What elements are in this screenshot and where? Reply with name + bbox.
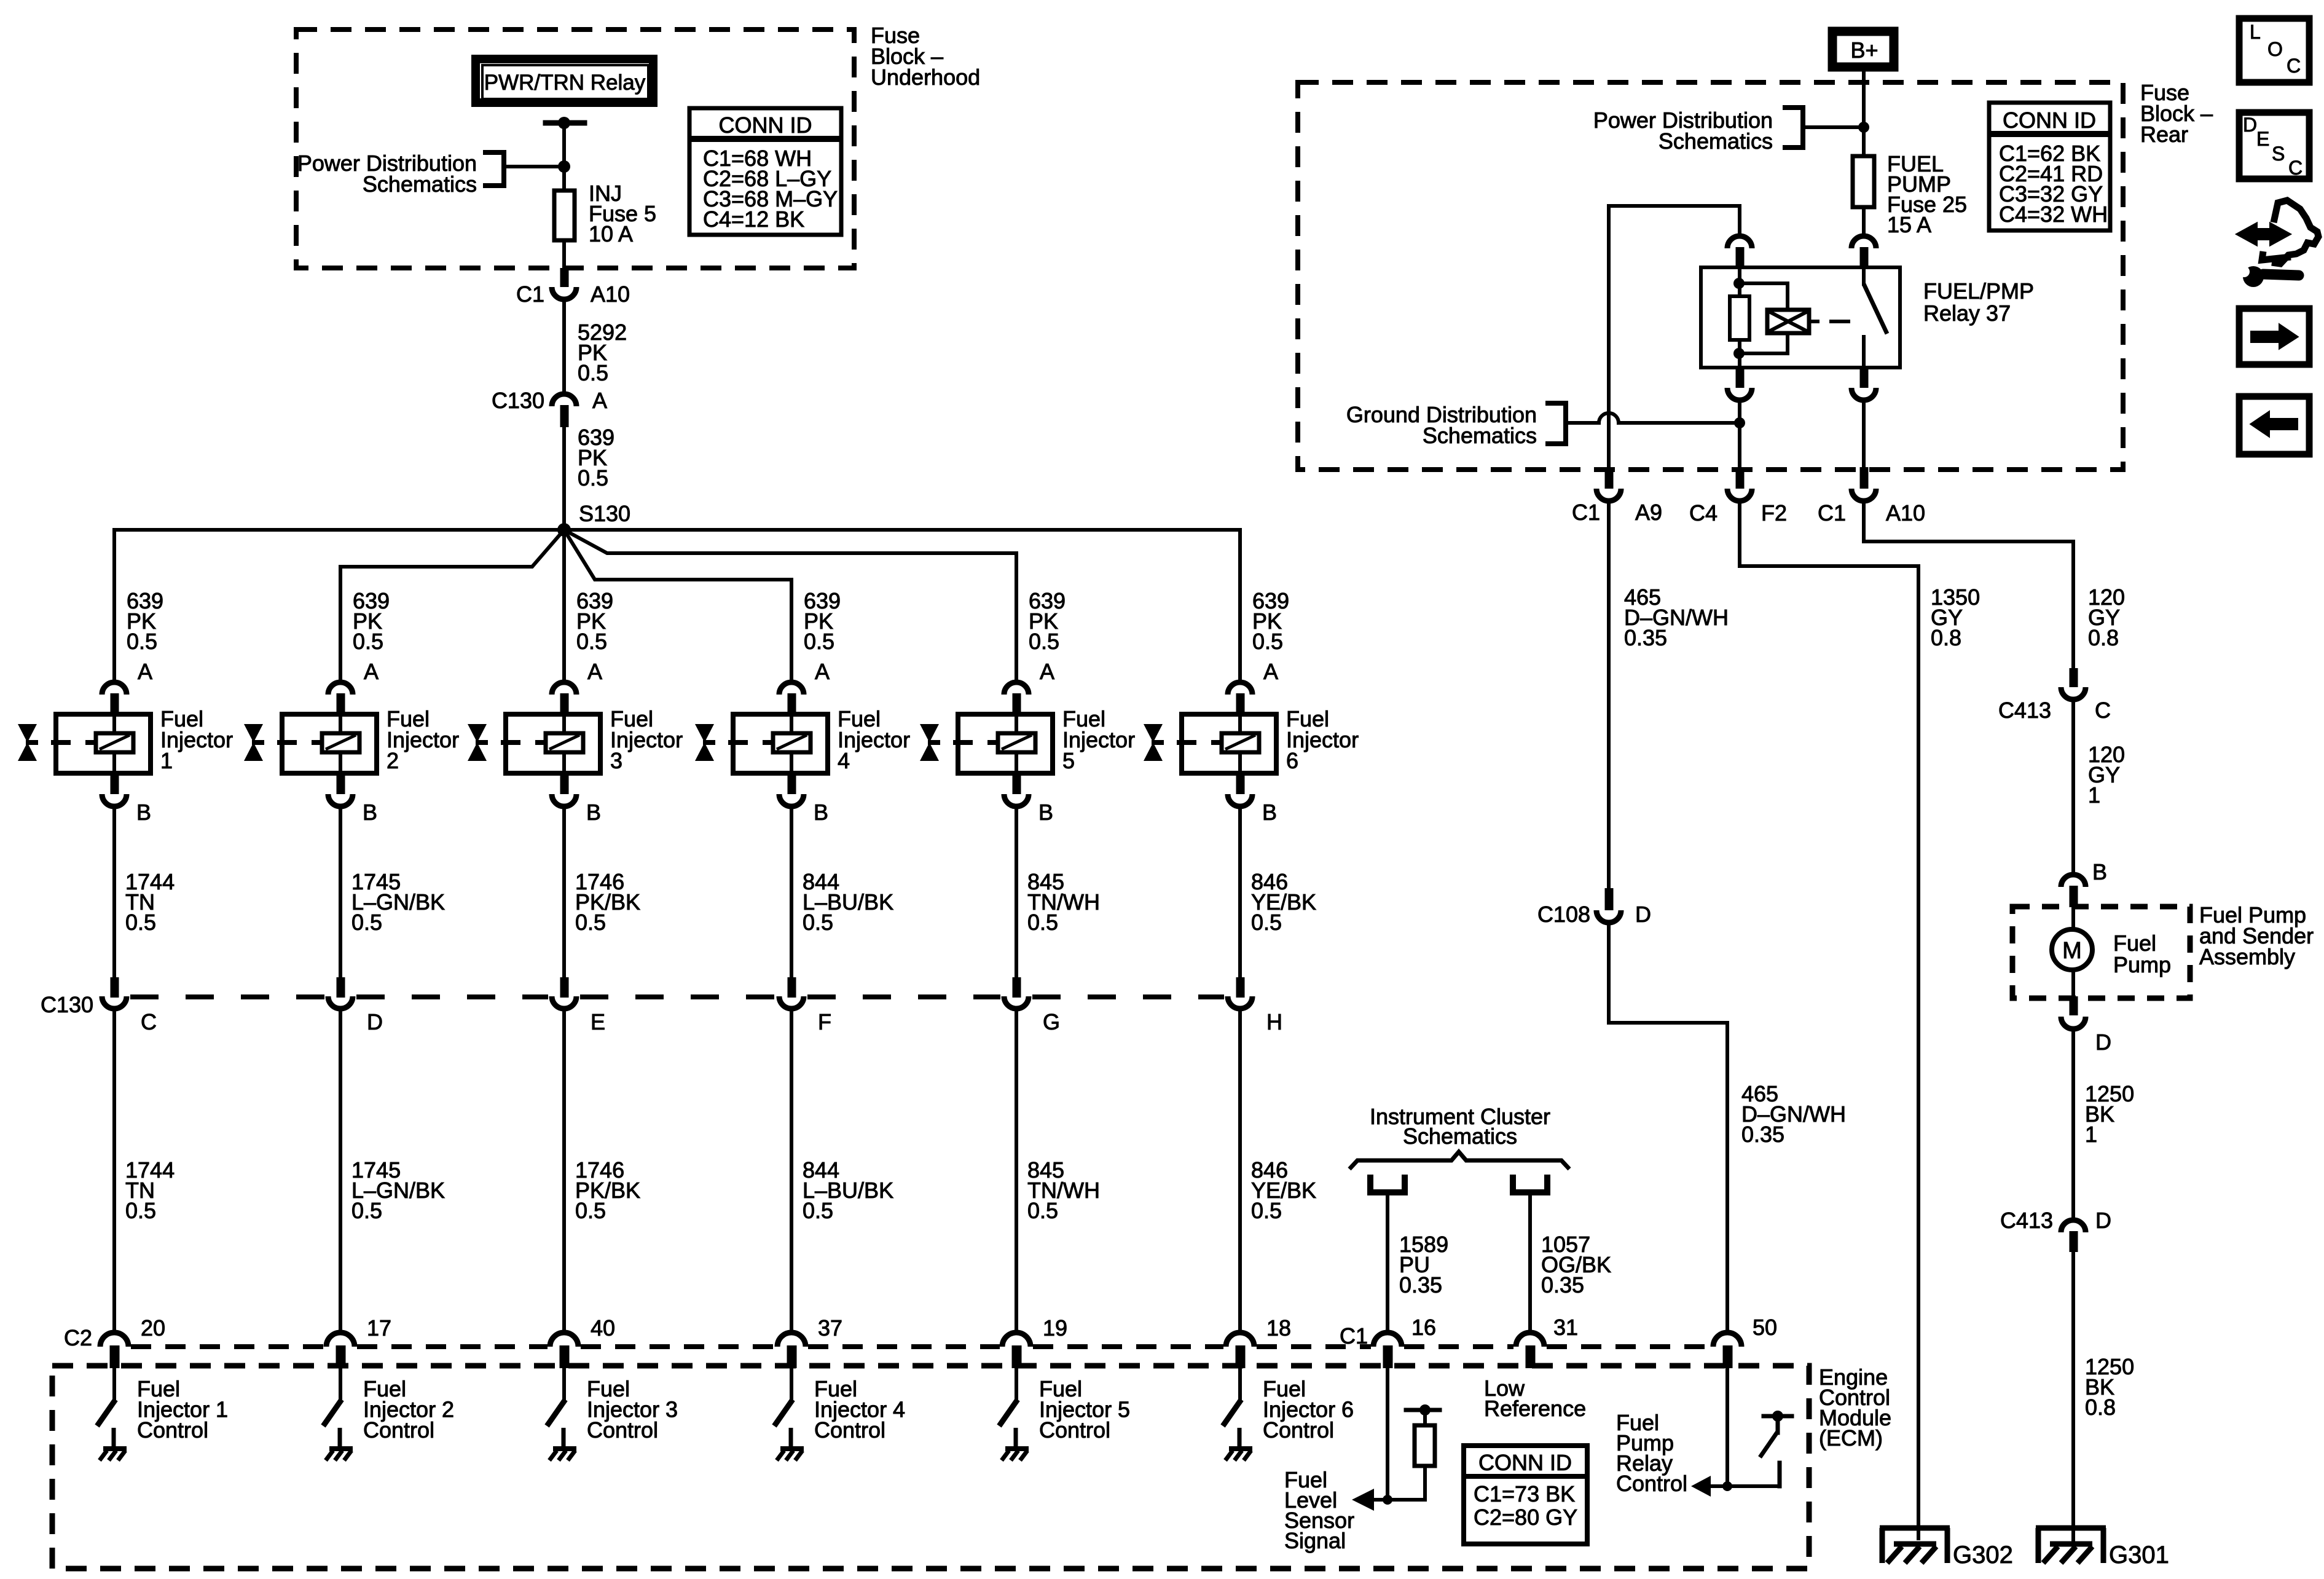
fuel injector 2 (solenoid with valve) [282,714,377,773]
svg-text:B: B [2092,859,2107,884]
svg-text:0.8: 0.8 [1931,625,1961,650]
wire: relay output down to fuse [562,123,566,189]
fuel pump and sender assembly enclosure [2012,907,2190,998]
svg-text:0.5: 0.5 [578,465,608,490]
svg-text:B: B [1038,800,1053,825]
svg-text:F: F [818,1009,831,1034]
svg-text:Underhood: Underhood [871,65,980,90]
svg-text:0.5: 0.5 [125,1198,156,1223]
fuel pump relay control arrow [1691,1476,1711,1497]
svg-text:Control: Control [1263,1417,1334,1443]
svg-text:Control: Control [1616,1471,1687,1496]
svg-text:Schematics: Schematics [1659,128,1773,154]
svg-text:19: 19 [1043,1315,1067,1341]
svg-text:C: C [141,1009,157,1034]
ground (ECM internal) injector 1 [100,1449,127,1460]
connector arc relay switch bottom [1860,368,1869,388]
wire 1746 PK/BK 0.5 upper [562,808,566,977]
svg-text:0.5: 0.5 [351,1198,382,1223]
wire 1350 GY 0.8 [1740,503,1918,1540]
ECM fuel injector 2 driver switch [339,1368,342,1400]
svg-text:1: 1 [2088,782,2100,808]
svg-text:1: 1 [2085,1122,2097,1147]
svg-text:F2: F2 [1761,500,1787,526]
wire B+ down [1862,71,1866,154]
wire: pin 16 to fuel level sensor node [1386,1368,1389,1500]
svg-text:15 A: 15 A [1887,212,1931,237]
svg-text:Schematics: Schematics [363,171,477,197]
svg-text:Schematics: Schematics [1423,423,1537,448]
svg-text:0.5: 0.5 [575,1198,606,1223]
svg-text:A10: A10 [591,282,630,307]
svg-text:6: 6 [1286,748,1298,773]
ground (ECM internal) injector 3 [549,1449,576,1460]
svg-text:0.5: 0.5 [1029,629,1059,654]
branch wire to injector 3 [562,530,566,682]
wire 1057 OG/BK 0.35 [1528,1192,1532,1332]
svg-text:G301: G301 [2109,1542,2169,1569]
svg-text:S130: S130 [579,501,630,526]
ground (ECM internal) injector 4 [777,1449,804,1460]
svg-text:C2=80 GY: C2=80 GY [1474,1505,1577,1530]
connector arc relay coil bottom [1736,368,1745,388]
wire 5292 PK 0.5 [562,301,566,392]
connector pin D fuel pump [2070,996,2078,1015]
svg-text:0.5: 0.5 [1027,910,1058,935]
svg-text:0.5: 0.5 [1027,1198,1058,1223]
icon wrench and arrows [2237,200,2318,287]
connector pin B of injector 2 [337,776,345,794]
connector C108 pin D [1605,888,1614,910]
svg-text:0.5: 0.5 [1251,910,1282,935]
svg-text:Pump: Pump [2113,952,2171,977]
svg-text:0.5: 0.5 [578,360,608,385]
connector C130 pin H [1236,977,1245,998]
svg-text:0.5: 0.5 [803,1198,833,1223]
icon DESC box [2239,112,2309,179]
wire 639 PK 0.5 (main feed) [562,427,566,530]
svg-text:17: 17 [367,1315,391,1341]
svg-text:0.35: 0.35 [1541,1272,1584,1297]
svg-text:0.5: 0.5 [1251,1198,1282,1223]
svg-text:CONN ID: CONN ID [2003,108,2096,133]
svg-text:L: L [2250,21,2261,43]
svg-text:0.5: 0.5 [125,910,156,935]
ECM enclosure [52,1366,1809,1569]
wire 1250 BK 0.8 [2071,1252,2075,1540]
svg-text:18: 18 [1266,1315,1291,1341]
fuel level sensor signal arrow [1352,1489,1374,1511]
svg-text:C4: C4 [1689,500,1717,526]
svg-text:0.5: 0.5 [804,629,834,654]
svg-text:C: C [2287,55,2301,77]
cluster stub (low reference) [1513,1175,1547,1192]
fuse INJ Fuse 5 10 A [554,191,575,240]
wire 1589 PU 0.35 [1386,1192,1389,1332]
svg-text:0.35: 0.35 [1399,1272,1442,1297]
CONN ID table ECM [1464,1446,1587,1544]
svg-text:Control: Control [814,1417,885,1443]
node: relay output terminal bar [546,120,584,126]
fuel injector 5 (solenoid with valve) [958,714,1053,773]
connector pin B of injector 1 [111,776,119,794]
svg-text:C108: C108 [1537,902,1590,927]
connector arc relay coil top [1727,236,1752,248]
svg-text:37: 37 [818,1315,842,1341]
cluster stub (fuel level signal) [1370,1175,1405,1192]
ECM fuel pump relay driver switch [1778,1463,1782,1486]
wire 846 YE/BK 0.5 lower [1238,1011,1242,1332]
node: internal supply bar [1406,1408,1440,1412]
fuel injector 3 (solenoid with valve) [506,714,600,773]
branch wire to injector 5 [564,530,1016,682]
svg-text:Control: Control [1039,1417,1110,1443]
connector arc relay switch top [1851,236,1876,248]
svg-text:Control: Control [587,1417,658,1443]
connector C1 pin A9 [1605,467,1614,489]
ground (ECM internal) injector 5 [1002,1449,1029,1460]
C130 in-line connector dashed line [130,994,324,999]
svg-text:CONN ID: CONN ID [719,112,812,138]
relay solenoid (X box) [1767,310,1809,333]
svg-text:A: A [815,659,830,684]
svg-text:Control: Control [137,1417,208,1443]
connector C130 pin G [1013,977,1021,998]
ground (ECM internal) injector 2 [326,1449,353,1460]
wire 845 TN/WH 0.5 lower [1015,1011,1018,1332]
svg-text:C4=32 WH: C4=32 WH [1999,202,2108,227]
svg-text:FUEL/PMP: FUEL/PMP [1923,278,2034,304]
svg-text:16: 16 [1411,1315,1436,1340]
branch wire to injector 2 [340,530,564,682]
svg-text:0.5: 0.5 [127,629,157,654]
svg-text:B: B [363,800,377,825]
connector C130 pin A [552,394,576,406]
connector C413 pin C [2070,668,2078,687]
svg-text:C1: C1 [1818,500,1846,526]
svg-text:A: A [364,659,379,684]
svg-text:G302: G302 [1953,1542,2013,1569]
wire 844 L–BU/BK 0.5 upper [790,808,793,977]
svg-text:0.35: 0.35 [1741,1122,1784,1147]
connector C130 pin D [337,977,345,998]
FUEL/PMP Relay 37 [1701,267,1900,368]
svg-text:(ECM): (ECM) [1819,1425,1883,1451]
ECM fuel injector 1 driver switch [112,1368,116,1400]
svg-text:C: C [2095,698,2111,723]
wire 1746 PK/BK 0.5 lower [562,1011,566,1332]
svg-text:C1: C1 [516,282,544,307]
ECM fuel injector 5 driver switch [1015,1368,1018,1400]
relay link dashes [1809,320,1818,323]
svg-text:B+: B+ [1850,37,1878,63]
battery feed B+ [1832,31,1894,67]
ECM connector dashed line C2/C1 [131,1344,324,1349]
svg-text:31: 31 [1553,1315,1578,1340]
svg-text:B: B [1262,800,1277,825]
svg-text:C1: C1 [1572,500,1600,525]
connector pin B of injector 4 [788,776,796,794]
svg-text:D: D [1635,902,1651,927]
connector C4 pin F2 [1736,467,1745,489]
svg-text:5: 5 [1062,748,1075,773]
connector C1 pin A10 (underhood) [560,268,569,287]
wire fuse to relay switch [1862,209,1866,234]
svg-text:A10: A10 [1886,500,1925,526]
connector pin B of injector 5 [1013,776,1021,794]
svg-text:C4=12 BK: C4=12 BK [703,207,804,232]
svg-text:A9: A9 [1635,500,1662,525]
svg-text:A: A [1263,659,1278,684]
svg-text:CONN ID: CONN ID [1478,1450,1572,1475]
fuel injector 4 (solenoid with valve) [733,714,828,773]
svg-text:2: 2 [387,748,399,773]
svg-text:PWR/TRN Relay: PWR/TRN Relay [484,71,646,95]
wire: pin 50 to relay driver [1725,1368,1729,1486]
svg-text:M: M [2062,938,2082,964]
fuse FUEL PUMP Fuse 25 15 A [1853,156,1874,207]
ground G301 [2036,1528,2106,1563]
icon arrow next [2239,309,2309,364]
svg-text:40: 40 [591,1315,615,1341]
wire hop over A9 wire [1599,413,1619,423]
svg-text:C1: C1 [1340,1323,1368,1349]
svg-text:0.5: 0.5 [351,910,382,935]
svg-text:E: E [2256,128,2269,150]
svg-text:Rear: Rear [2140,122,2188,147]
connector C1 pin A10 (rear) [1860,467,1869,489]
svg-text:G: G [1043,1009,1060,1034]
svg-text:50: 50 [1753,1315,1777,1340]
svg-text:3: 3 [610,748,622,773]
svg-text:D: D [2095,1030,2111,1055]
svg-text:C1=73 BK: C1=73 BK [1474,1481,1575,1506]
ground (ECM internal) injector 6 [1225,1449,1252,1460]
ECM fuel injector 4 driver switch [790,1368,793,1400]
ECM fuel injector 6 driver switch [1238,1368,1242,1400]
wire 465 to ECM pin 50 [1609,925,1727,1332]
svg-text:A: A [1040,659,1054,684]
CONN ID table rear [1989,103,2110,230]
instrument cluster brace [1349,1152,1569,1169]
CONN ID table underhood [689,108,841,235]
svg-text:Schematics: Schematics [1403,1124,1517,1149]
ECM fuel injector 3 driver switch [562,1368,566,1400]
svg-text:0.8: 0.8 [2085,1395,2116,1420]
svg-text:B: B [586,800,601,825]
svg-text:S: S [2272,143,2285,165]
svg-text:0.5: 0.5 [576,629,607,654]
svg-text:1: 1 [160,748,173,773]
svg-text:A: A [592,388,607,413]
svg-text:0.8: 0.8 [2088,625,2119,650]
svg-text:0.5: 0.5 [803,910,833,935]
wire 844 L–BU/BK 0.5 lower [790,1011,793,1332]
svg-text:C: C [2288,157,2302,179]
wire 465 D-GN/WH 0.35 upper [1607,503,1611,888]
svg-text:Signal: Signal [1284,1528,1346,1553]
svg-text:0.5: 0.5 [1252,629,1283,654]
connector pin B of injector 3 [560,776,569,794]
svg-text:B: B [136,800,151,825]
svg-text:0.35: 0.35 [1624,625,1667,650]
connector pin B of injector 6 [1236,776,1245,794]
branch wire to injector 4 [564,530,791,682]
svg-text:C130: C130 [41,992,93,1017]
svg-text:A: A [138,659,152,684]
svg-text:C2: C2 [64,1325,92,1350]
svg-text:D: D [2095,1208,2111,1233]
wire 1744 TN 0.5 lower [112,1011,116,1332]
svg-text:C130: C130 [492,388,544,413]
svg-text:Relay 37: Relay 37 [1923,301,2011,326]
wire 1745 L–GN/BK 0.5 lower [339,1011,342,1332]
svg-text:Control: Control [363,1417,434,1443]
bus wire from S130 to injectors 1 and 6 [114,528,1240,532]
icon arrow previous [2239,396,2309,454]
wire 120 GY 0.8 [1864,503,2073,668]
svg-text:D: D [2243,114,2257,136]
wire 1250 BK 1 [2071,1031,2075,1218]
fuel pump motor M [2071,907,2075,930]
svg-text:0.5: 0.5 [575,910,606,935]
svg-text:D: D [367,1009,383,1034]
resistor (ECM internal pull-up) [1423,1466,1427,1500]
svg-text:B: B [814,800,828,825]
svg-text:0.5: 0.5 [353,629,383,654]
fuel injector 6 (solenoid with valve) [1182,714,1276,773]
wire coil to ground distribution junction [1738,403,1741,470]
svg-text:10 A: 10 A [589,221,633,246]
svg-text:C413: C413 [1998,698,2051,723]
wire 845 TN/WH 0.5 upper [1015,808,1018,977]
connector C413 pin D [2061,1220,2086,1232]
svg-text:A: A [587,659,602,684]
connector C130 pin F [788,977,796,998]
svg-text:H: H [1266,1009,1282,1034]
PWR/TRN Relay label box [476,59,653,103]
svg-text:E: E [591,1009,605,1034]
svg-text:Reference: Reference [1484,1396,1586,1421]
svg-text:Assembly: Assembly [2199,944,2295,969]
svg-text:O: O [2267,38,2283,60]
connector C130 pin C [111,977,119,998]
svg-text:20: 20 [141,1315,165,1341]
junction: power distribution tap [558,160,570,173]
wire 120 GY 1 [2071,702,2075,873]
svg-text:4: 4 [838,748,850,773]
wire: fuse to connector C1 [562,242,566,269]
relay coil feed wire [1609,206,1740,234]
relay coil resistor [1730,296,1749,340]
icon LOC box [2239,18,2309,82]
connector C130 pin E [560,977,569,998]
svg-text:C413: C413 [2000,1208,2053,1233]
relay coil circuit [1738,267,1741,296]
wire 1744 TN 0.5 upper [112,808,116,977]
fuse block underhood enclosure [296,30,854,268]
wire 846 YE/BK 0.5 upper [1238,808,1242,977]
fuse block rear enclosure [1298,82,2123,470]
wire 1745 L–GN/BK 0.5 upper [339,808,342,977]
ground G302 [1880,1528,1950,1563]
relay switch [1862,267,1866,284]
fuel injector 1 (solenoid with valve) [56,714,151,773]
